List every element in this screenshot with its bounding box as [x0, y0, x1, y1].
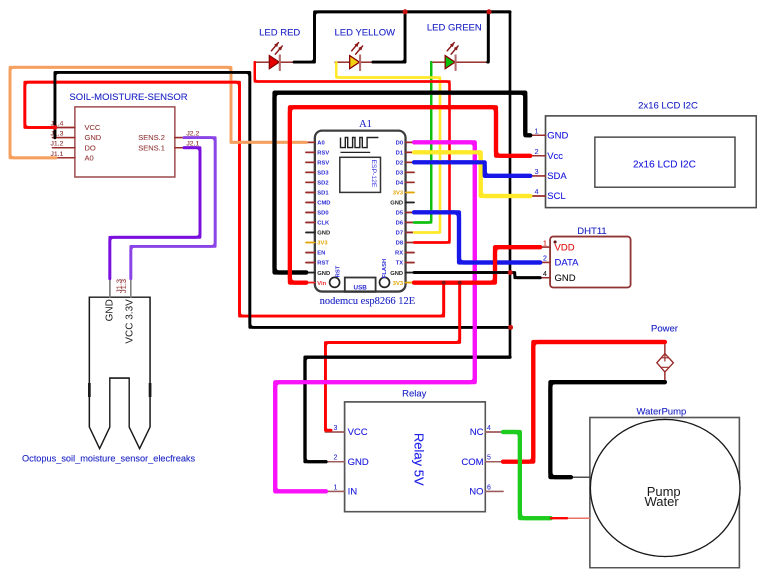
svg-text:RST: RST	[317, 261, 329, 267]
svg-text:D0: D0	[396, 141, 403, 147]
svg-text:D4: D4	[396, 181, 404, 187]
svg-text:D8: D8	[396, 241, 404, 247]
svg-text:6: 6	[487, 484, 491, 491]
svg-text:LED YELLOW: LED YELLOW	[335, 28, 396, 39]
svg-text:4: 4	[487, 425, 491, 432]
svg-text:VCC: VCC	[348, 427, 368, 438]
svg-text:D6: D6	[396, 221, 404, 227]
svg-text:SD0: SD0	[317, 211, 328, 217]
svg-text:RSV: RSV	[317, 151, 329, 157]
svg-text:VCC 3.3V: VCC 3.3V	[125, 299, 136, 344]
svg-text:Power: Power	[651, 324, 678, 335]
svg-text:RSV: RSV	[317, 161, 329, 167]
svg-text:2x16 LCD I2C: 2x16 LCD I2C	[633, 160, 696, 171]
svg-text:SCL: SCL	[547, 191, 565, 202]
svg-text:5: 5	[487, 455, 491, 462]
svg-text:LED RED: LED RED	[259, 28, 300, 39]
svg-text:3V3: 3V3	[393, 281, 404, 287]
svg-text:1: 1	[334, 484, 338, 491]
svg-text:3V3: 3V3	[317, 241, 328, 247]
svg-text:SD2: SD2	[317, 181, 328, 187]
svg-text:nodemcu esp8266 12E: nodemcu esp8266 12E	[320, 296, 416, 307]
svg-text:DO: DO	[85, 143, 96, 152]
svg-text:RST: RST	[335, 265, 341, 277]
svg-text:IN: IN	[348, 487, 358, 498]
svg-text:SDA: SDA	[547, 171, 567, 182]
svg-text:3V3: 3V3	[393, 191, 404, 197]
svg-text:FLASH: FLASH	[382, 259, 388, 278]
svg-text:Relay 5V: Relay 5V	[411, 433, 426, 486]
svg-text:VDD: VDD	[555, 242, 575, 253]
svg-text:LED GREEN: LED GREEN	[427, 23, 482, 34]
svg-text:Vin: Vin	[317, 281, 326, 287]
svg-text:D1: D1	[396, 151, 404, 157]
svg-text:GND: GND	[85, 133, 102, 142]
svg-text:SENS.1: SENS.1	[138, 143, 165, 152]
svg-text:J1.2: J1.2	[51, 141, 64, 148]
svg-text:D2: D2	[396, 161, 403, 167]
svg-text:4: 4	[535, 189, 539, 196]
svg-text:Relay: Relay	[402, 388, 427, 399]
svg-text:D5: D5	[396, 211, 404, 217]
svg-text:J1.3: J1.3	[119, 279, 128, 293]
svg-text:USB: USB	[354, 284, 368, 291]
svg-text:RX: RX	[395, 251, 403, 257]
svg-text:CMD: CMD	[317, 201, 330, 207]
svg-text:4: 4	[543, 271, 547, 278]
svg-text:COM: COM	[461, 457, 483, 468]
svg-text:ESP-12E: ESP-12E	[370, 160, 377, 188]
svg-text:TX: TX	[396, 261, 404, 267]
svg-text:A0: A0	[85, 153, 94, 162]
svg-text:2: 2	[543, 256, 547, 263]
svg-text:SD1: SD1	[317, 191, 329, 197]
svg-text:2x16 LCD I2C: 2x16 LCD I2C	[638, 101, 698, 112]
svg-text:GND: GND	[348, 457, 369, 468]
svg-text:3: 3	[535, 169, 539, 176]
svg-text:Vcc: Vcc	[547, 151, 563, 162]
svg-text:3: 3	[334, 425, 338, 432]
svg-text:GND: GND	[390, 201, 403, 207]
svg-text:1: 1	[543, 240, 547, 247]
svg-text:J1.3: J1.3	[51, 131, 64, 138]
svg-text:SD3: SD3	[317, 171, 329, 177]
svg-text:DHT11: DHT11	[577, 226, 606, 237]
svg-text:CLK: CLK	[317, 221, 330, 227]
svg-text:GND: GND	[317, 231, 330, 237]
svg-text:VCC: VCC	[85, 123, 101, 132]
svg-text:Water: Water	[644, 494, 679, 509]
svg-text:GND: GND	[104, 299, 115, 321]
svg-text:GND: GND	[547, 131, 568, 142]
svg-text:GND: GND	[390, 271, 403, 277]
svg-text:DATA: DATA	[555, 258, 580, 269]
svg-text:A1: A1	[359, 119, 372, 130]
svg-text:NC: NC	[470, 427, 484, 438]
svg-text:GND: GND	[317, 271, 330, 277]
svg-text:2: 2	[535, 149, 539, 156]
svg-text:EN: EN	[317, 251, 325, 257]
svg-text:Octopus_soil_moisture_sensor_e: Octopus_soil_moisture_sensor_elecfreaks	[22, 454, 196, 464]
svg-text:NO: NO	[469, 487, 483, 498]
svg-text:2: 2	[334, 455, 338, 462]
svg-text:1: 1	[535, 128, 539, 135]
svg-text:SENS.2: SENS.2	[138, 133, 165, 142]
svg-text:GND: GND	[555, 273, 576, 284]
svg-text:D7: D7	[396, 231, 403, 237]
svg-text:D3: D3	[396, 171, 404, 177]
svg-text:SOIL-MOISTURE-SENSOR: SOIL-MOISTURE-SENSOR	[69, 92, 187, 103]
svg-text:A0: A0	[317, 141, 324, 147]
svg-text:WaterPump: WaterPump	[636, 406, 686, 417]
